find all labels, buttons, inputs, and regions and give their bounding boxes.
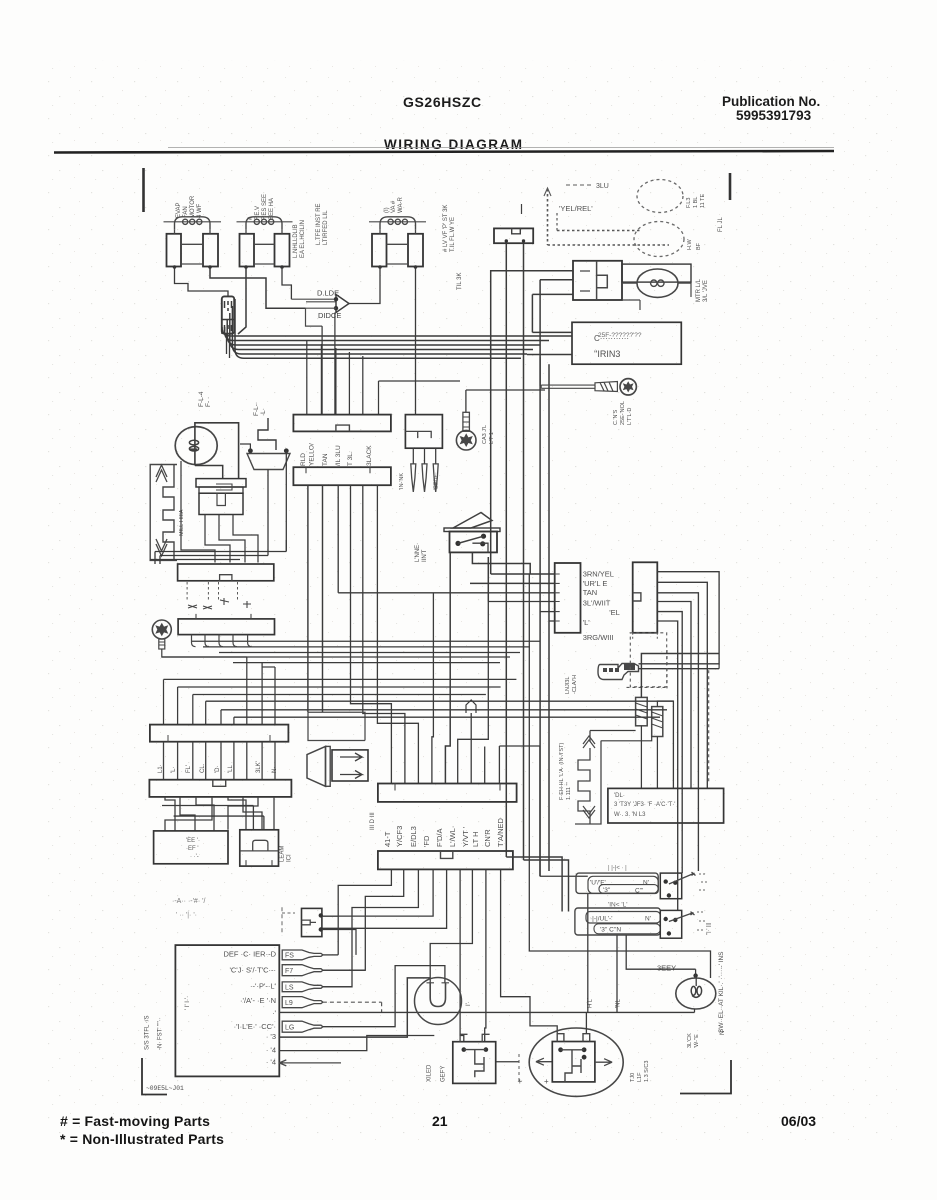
svg-text:·-A·· ·-'#· '/: ·-A·· ·-'#· '/ [172,898,205,905]
PTC contact 2 [484,1047,489,1052]
svg-text:·': ·' [272,1009,276,1018]
start device pin A [651,280,657,286]
light switch notch wire [472,552,530,574]
P7 output 6 [657,621,677,910]
harness bundle wire 3 [227,320,540,345]
spade L9 wire dashed [323,1001,382,1003]
wire diode arrow down [334,313,336,415]
connector P7 [633,562,658,633]
svg-text:+: + [544,1077,549,1086]
wire lamp top loop [195,423,239,479]
compressor right arrow [595,1059,612,1066]
P5 drop 2 [323,869,404,970]
connector P3 [405,415,442,449]
run capacitor [302,908,322,936]
wire bundle to P1 pin 4 [348,352,350,415]
ice maker mid plate [199,487,243,493]
tstat run 4 [162,656,510,658]
lamp F-L-4 pass-through wire [194,427,196,466]
svg-text:25E-'NOL: 25E-'NOL [620,401,626,425]
header rule shadow [168,147,834,149]
heater feed stair 1 [206,701,674,788]
connector P8 [150,725,289,742]
P8 pin drop x221 [220,710,222,725]
svg-text:DIDCE: DIDCE [318,311,341,320]
svg-text:TAN: TAN [322,453,329,466]
diagram corner mark top-right [729,173,732,200]
PTC start relay [453,1042,496,1084]
svg-text:CA3 J'L: CA3 J'L [482,425,488,444]
door switch contact right [284,448,289,453]
wire into comp box 2 [527,354,572,356]
svg-text:'EE '·: 'EE '· [186,838,200,844]
cold control box [178,619,274,635]
ice maker body tab [217,493,225,505]
svg-text:T 3L.: T 3L. [347,451,354,466]
P2 drop 2 [322,485,324,712]
dispenser switch module 1 inner [588,876,658,893]
connector P4 [378,784,517,802]
door switch body [247,454,290,470]
svg-text:LT H: LT H [471,831,480,847]
P2 drop 5 [363,485,405,783]
module2 feed b [524,860,569,912]
ice maker plug ticks [246,860,272,866]
dispenser switch module 2 inner [586,912,660,924]
weave long run 1 [162,805,253,807]
ice maker wire 1 [205,515,230,563]
light switch body [450,532,498,553]
spade terminal LS [282,982,323,992]
diagram corner mark top-left [142,168,145,212]
svg-text:3RG/WIII: 3RG/WIII [583,633,614,642]
svg-text:L'/WL·: L'/WL· [448,826,457,847]
weave long run 2 [174,815,264,817]
ground bracket wire drop [718,664,720,669]
dashed riser arrowhead [544,188,551,196]
water valve connector [494,228,533,243]
svg-text:F- ·: F- · [205,397,212,407]
motor M2 condenser fan winding links [254,244,275,264]
P2 drop 4 [351,485,392,783]
relay inner contacts [580,271,590,291]
wire weave P9 to boxes [165,797,274,831]
heater feed stair 2 [221,709,667,711]
wire cross feed [499,745,540,747]
motor M3 water valve left pin [378,265,382,269]
svg-text:YELLO/: YELLO/ [309,443,316,466]
wire right feed P4-8 [484,747,486,784]
motor M1 evaporator fan coil winding [175,217,211,230]
svg-text:'FD: 'FD [422,835,431,847]
switch S1 throw [673,881,677,885]
dashed drop right [708,670,710,783]
run capacitor key [302,920,317,925]
svg-text:XILED: XILED [427,1064,433,1082]
cabinet ground riser [465,390,467,412]
svg-text:BF: BF [696,242,702,250]
cabinet ground feed [466,389,545,391]
wire relay feed 1 [491,271,573,574]
defrost thermostat link 1 [636,697,648,725]
P5 drop 4 [322,869,433,916]
motor M1 evaporator fan left winding [167,234,182,267]
connector P7 dashed skirt [633,633,658,640]
svg-text:T'A/NED: T'A/NED [496,817,505,847]
connector P2 pin ticks [306,467,370,473]
wire M1 right pin down [210,267,306,308]
svg-text:3/L 'JVE: 3/L 'JVE [703,280,709,302]
light switch lever [453,513,492,529]
light switch contact arm [458,536,484,543]
svg-text:3LU: 3LU [596,183,609,190]
light switch pole [455,541,460,546]
svg-text:'L·: 'L· [171,767,177,773]
damper dashed pins [187,582,237,600]
svg-text:+: + [518,1077,523,1086]
wire M2 left pin down [238,267,246,334]
P3 lead 2 [424,448,426,464]
motor M3 water valve pin stubs [380,230,416,234]
wire upper right feed [379,380,461,382]
header rule [54,151,834,153]
switch long run [338,592,555,594]
wire diode box down [321,326,323,415]
svg-text:| |-|< · |: | |-|< · | [608,866,627,872]
svg-text:·-'·P'-·L': ·-'·P'-·L' [250,982,277,991]
diode D1 input lines [291,299,336,302]
P6 input 6 [549,620,555,622]
svg-text:CN'R: CN'R [483,829,492,847]
svg-text:06/03: 06/03 [781,1113,816,1129]
svg-text:-CLA/'H: -CLA/'H [572,675,578,694]
dispenser switch module 1 outline [576,873,658,893]
svg-text:LTIRFED LIL: LTIRFED LIL [323,210,329,245]
svg-text:'IN< 'L': 'IN< 'L' [608,902,627,909]
wire mid drop hook [466,700,476,713]
wire right feed P4-9 [498,746,500,784]
chassis ground wire [162,649,247,657]
P5 drop 3 [323,869,419,986]
svg-text:F-L-·: F-L-· [253,402,260,416]
pre-box1 run 2 [160,555,268,557]
P5 drop 8 to PTC2 [485,869,486,1041]
compressor contact C [558,1047,563,1052]
P5 drop 9 to compressor [501,869,558,1033]
run capacitor pin 2 [319,927,323,931]
svg-text:'EEDE·: 'EEDE· [434,472,440,490]
capacitor pin2 wire [322,930,356,955]
svg-text:· '4: · '4 [266,1045,276,1054]
svg-text:3L'CK: 3L'CK [687,1033,693,1048]
svg-text:FL JL: FL JL [718,217,724,232]
link2 top lead [657,701,673,707]
F row long wire [279,1011,694,1013]
freezer jamb arrow down [156,539,167,556]
compressor contact S [582,1055,587,1060]
buzzer base bar [326,746,331,786]
door switch contact left [248,448,253,453]
harness dash splitter [281,907,283,935]
svg-text:3LACK: 3LACK [366,445,373,466]
defrost heater box [608,788,724,823]
dash lead to BLU [566,184,592,186]
module2 feed [506,857,562,912]
fresh food jamb arrow up [583,736,595,748]
diode D1 anode dot [334,297,338,301]
nest stub [262,666,275,668]
diagram corner mark bottom-left [142,1058,167,1095]
svg-text:C.'N'S: C.'N'S [613,409,619,425]
pre-box1 run 3 [150,559,240,561]
jamb bottom link [149,559,151,562]
svg-text:EA EL.HCILIN: EA EL.HCILIN [300,220,306,258]
diode D1 arrow [336,295,349,313]
svg-text:·'I·L'E·' ·CC'·: ·'I·L'E·' ·CC'· [234,1022,276,1031]
freezer door jamb outline [150,465,177,561]
dispenser switch module 1 lower pill [599,885,658,894]
svg-text:'W-''E: 'W-''E [694,1034,700,1048]
svg-text:SEE HA: SEE HA [269,198,275,220]
switch S2 lever [669,912,695,922]
start device oval [637,269,678,297]
svg-text:N': N' [645,916,651,923]
switch S2 throw [673,918,677,922]
motor M3 water valve left winding [372,234,387,267]
ground lead wires [541,385,595,388]
motor M2 condenser fan pin stubs [246,230,282,234]
svg-text:L9: L9 [285,1000,293,1007]
svg-text:L.NHLLDLIB: L.NHLLDLIB [293,224,299,258]
connector P6 [555,563,581,633]
diagram corner mark bottom-right [680,1060,731,1094]
harness boundary dashed [630,633,666,687]
svg-text:MTR L/L: MTR L/L [696,278,702,302]
link feed left 1 [590,730,636,732]
svg-text:3EEY: 3EEY [657,964,676,973]
dashed corner yel-red [556,213,558,231]
svg-text:LS: LS [285,985,294,992]
heater feed stair 3 [234,716,660,718]
P6 input 2 [470,582,555,584]
svg-text:(I): (I) [384,207,390,213]
P8 pin drop x233.9 [233,717,235,724]
link1 top lead [641,654,719,698]
control L4b arrow [279,1060,341,1066]
buzzer terminal box [332,750,368,781]
control L4 wire [279,1036,434,1051]
svg-text:'U'/'E': 'U'/'E' [590,880,606,887]
svg-text:IIN'T: IIN'T [422,549,428,562]
wire into comp box 1 [532,331,572,333]
svg-text:GS26HSZC: GS26HSZC [403,94,482,110]
P8 pin drop x163.5 [163,679,165,724]
svg-text:L'T 1: L'T 1 [489,432,495,444]
svg-text:Y/CF3: Y/CF3 [395,826,404,847]
water valve pin L [505,239,508,242]
defrost thermostat link 2 [652,707,663,737]
wire right drop to P1 pin 6 [378,381,380,415]
damper control box [178,564,274,581]
wire M2 right pin to diode [282,267,291,299]
svg-text:E/DL3: E/DL3 [409,826,418,847]
link2 bottom lead [656,737,658,789]
switch S1 lever [669,872,696,884]
buzzer horn [307,746,326,786]
defrost thermostat outline [415,978,462,1025]
tstat run 5 [233,662,500,664]
thermal fuse body [222,296,234,333]
svg-text:TAN: TAN [583,588,597,597]
P3 lead 1 [412,448,414,464]
water valve lead 2 [523,243,525,860]
motor M2 condenser fan left winding [240,234,255,267]
light switch top plate [444,528,500,532]
svg-text:''|·' |||: ''|·' ||| [706,923,712,935]
timer box [154,831,228,864]
pre-box1 run 1 [155,551,286,553]
tstat run 2 [203,646,530,648]
light switch throw NO [481,534,486,539]
switch S2 pole [664,917,668,921]
svg-text:F'D/A: F'D/A [435,828,444,847]
switch S1 NO marks [699,874,707,890]
connector P6 pin ticks [555,574,560,621]
svg-text:'L': 'L' [583,618,591,627]
ice maker body [199,493,243,514]
wire relay feed 2 [540,279,573,281]
grey wire [626,935,695,969]
P5 drop 6 to PTC [460,869,464,1041]
dashed riser [547,189,549,245]
door switch arm [258,418,276,450]
grey lamp bulb [676,978,716,1009]
svg-text:' ·· '|· '·: ' ·· '|· '· [176,912,197,919]
svg-text:25F-??????'??: 25F-??????'?? [598,332,642,339]
bullet terminal 2 [422,464,427,492]
dashed run yel-red [557,230,640,232]
overload housing [622,264,691,282]
dashed run lower [548,244,670,246]
svg-text:L'T'L·D: L'T'L·D [627,408,633,425]
svg-text:RLD: RLD [300,453,307,466]
svg-text:· '3: · '3 [266,1032,276,1041]
P8 pin drop 7 [246,657,248,725]
door switch right lead [285,451,287,552]
svg-text:TJ0: TJ0 [630,1073,636,1082]
svg-text:/IL 3LU: /IL 3LU [335,445,342,466]
wire M3 right down to P1 [415,267,417,415]
P2 drop 1 [307,485,309,712]
svg-text:5995391793: 5995391793 [736,108,812,123]
wire mid drop 6 [470,713,472,784]
svg-text:* = Non-Illustrated Parts: * = Non-Illustrated Parts [60,1131,224,1147]
light switch drop to P4 [432,593,434,784]
bullet terminal 1 [411,464,416,492]
wire right feed P4-7 [458,602,489,784]
svg-text:S/S 3TFL ·/S: S/S 3TFL ·/S [145,1016,151,1050]
buzzer pin arrows [340,753,362,779]
ice maker top plate [196,479,246,487]
spade L9 drop [381,1002,383,1012]
chassis ground head [152,620,171,639]
dashed link v [666,650,668,688]
link feed left 2 [601,737,652,741]
svg-text:· ·'-: · ·'- [190,854,199,860]
buzzer wire frame [308,712,365,740]
svg-text:SW··EL··AT KIL·.' ·'····-': SW··EL··AT KIL·.' ·'····-' INS [718,951,725,1033]
connector P9 [149,780,291,797]
control L3 wire [279,978,430,1037]
compressor contact R [582,1047,587,1052]
motor M3 water valve terminal line [369,221,426,223]
P6 input 5 drop [539,280,541,877]
connector P1 [293,415,391,432]
motor M2 condenser fan terminal line [237,221,293,223]
diode D2 anode dot [334,306,338,310]
motor M2 condenser fan right winding [275,234,290,267]
switch S1 pole [664,879,668,883]
ice maker wire 2 [219,515,245,563]
damper arrow contacts [188,598,251,609]
svg-text:·L·: ·L· [260,408,267,416]
svg-text:III D III: III D III [370,812,376,830]
svg-text:''IRIN3: ''IRIN3 [594,349,620,359]
motor M1 evaporator fan winding links [181,244,203,264]
P8 to P9 pin stubs [164,742,276,780]
spade terminal F7 [282,965,323,976]
PTC arrow to compressor [536,1058,552,1065]
lamp F-L-4 bulb [175,427,217,465]
wire comp box drop left [548,364,550,386]
ice maker plug box [240,830,279,866]
wire relay feed 3 drop [531,294,533,332]
connector P4 tick [395,784,500,791]
spade LG wire [323,966,445,1027]
nest run 2 [178,686,501,688]
svg-text:FL': FL' [186,765,192,773]
switch S1 body [660,873,681,899]
grey lamp pass wire [695,979,697,987]
svg-text:~09E5L~J01: ~09E5L~J01 [146,1085,184,1092]
water valve pin R [522,239,525,242]
svg-text:MOTOR: MOTOR [190,195,196,218]
compressor terminal box [552,1042,595,1082]
svg-text:'3'' C''N: '3'' C''N [600,927,621,934]
compressor wiring box [572,322,681,364]
dispenser switch module 2 outline [575,908,660,935]
svg-text:EVAP: EVAP [176,202,182,218]
motor M1 evaporator fan right pin [208,265,212,269]
P6 input 1 [491,573,555,575]
door switch left lead [240,444,250,451]
PTC right lead [496,1061,519,1063]
P5 drop 7 to defrost tstat [430,869,472,982]
harness bundle wire 4 [230,313,533,350]
cold control tick [196,614,251,619]
wire comp box drop left2 [539,357,541,386]
P7 output 3 [657,593,698,871]
water valve connector key [512,228,521,233]
svg-text:RES SEE: RES SEE [262,194,268,220]
harness bundle wire 5 [232,306,527,354]
svg-text:# LV VF 'P' ST 3K: # LV VF 'P' ST 3K [443,205,449,252]
svg-text:3L'/WIIT: 3L'/WIIT [583,598,611,607]
grey lamp bottom wire [694,1009,696,1012]
spade terminal FS [282,950,323,960]
pre-box1 drop b [159,556,161,565]
connector P1 key notch [336,425,350,431]
